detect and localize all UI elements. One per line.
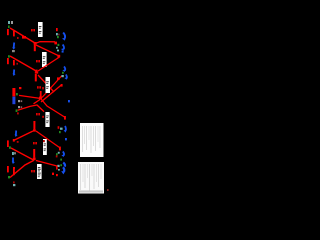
wire V1 to hub1 <box>10 28 35 43</box>
annotation box BB1 <box>80 123 104 157</box>
resistor above hub5 <box>33 149 35 158</box>
node K blob <box>57 55 60 58</box>
component box U5 <box>43 139 47 155</box>
wire hub2 down-right <box>38 75 54 92</box>
teal dot <box>58 169 60 171</box>
green terminal cell5 <box>9 146 11 148</box>
right terminal T1 pin <box>56 28 58 31</box>
red blob <box>13 167 15 169</box>
source bar red (cell3) <box>12 88 15 96</box>
load arrow (blue) <box>63 152 64 156</box>
wire hub1 to node K <box>36 45 60 56</box>
terminal bar end <box>64 116 66 120</box>
source V2 green terminal <box>8 55 10 57</box>
red dots <box>52 173 54 175</box>
wire V5 to hub5 <box>11 148 34 160</box>
blob on wire <box>57 77 60 80</box>
big blue arrow <box>63 163 65 167</box>
wire hub5 down-right <box>36 161 58 167</box>
cell6 resistor b <box>13 169 15 176</box>
red dot below <box>17 112 19 114</box>
resistor R3b <box>13 60 15 65</box>
component box U2 <box>42 52 47 67</box>
wire terminal line with branch to U4 <box>18 105 44 112</box>
source bar blue (cell3) <box>12 97 15 105</box>
blue dot above <box>65 138 67 140</box>
T1 label <box>56 33 60 35</box>
gray label b <box>18 106 22 108</box>
teal mark <box>57 50 59 52</box>
label R3 value (red) <box>36 60 40 62</box>
hub node H4 <box>33 129 36 131</box>
label (red) cell6 <box>31 170 35 172</box>
cell6 wire up to hub5 <box>10 160 34 177</box>
dark red blob on U5 corner <box>43 140 45 142</box>
resistor R4 below hub2 <box>35 74 37 81</box>
T3 teal label <box>61 75 63 77</box>
component box U3 <box>46 77 51 93</box>
wire hub4 down-left <box>15 131 34 140</box>
green terminal (cell3) <box>16 93 18 95</box>
cell3 junction dot top <box>19 87 21 89</box>
faint red dot far right <box>107 189 109 191</box>
red dot <box>17 141 19 143</box>
T5 red end <box>61 84 63 87</box>
resistor R3a <box>7 58 9 64</box>
wire hub3 stub up <box>40 91 42 97</box>
load arrow T4 (blue) <box>66 75 67 79</box>
annotation box BB2 <box>78 162 104 194</box>
wire hub4 down-right <box>36 131 60 148</box>
wire hub3 down-left stub <box>34 100 41 104</box>
label (red) cell5 <box>33 142 37 144</box>
hub node H3 <box>39 97 42 100</box>
teal label cell5 <box>12 152 16 155</box>
red wire end bar <box>56 166 58 169</box>
cell4 right terminal bar <box>59 147 61 151</box>
wire hub3 to T3 (steep) <box>42 76 62 98</box>
label under L1 <box>12 50 15 52</box>
wire hub2 to node K <box>38 57 60 71</box>
node N1 label text <box>8 21 13 24</box>
load arrow (blue) <box>64 126 67 131</box>
junction dot <box>16 63 18 65</box>
teal label cell6 <box>13 184 15 186</box>
label R1 value (red) <box>31 29 35 31</box>
green terminal 2 (cell3) <box>16 109 18 112</box>
green terminal cell6 <box>8 176 10 178</box>
resistor R1b <box>13 31 15 36</box>
gray label a <box>18 100 22 102</box>
resistor R5 above hub4 <box>33 121 35 129</box>
terminal red dot <box>58 126 60 129</box>
wire hub3 to T5 (shallow) <box>41 85 61 102</box>
source V1 green terminal <box>8 26 10 29</box>
component box U6 <box>37 164 42 179</box>
red dot <box>56 155 58 157</box>
T2 label teal <box>56 47 58 49</box>
teal label end <box>57 165 59 167</box>
blue dot right <box>68 100 70 102</box>
junction dot <box>17 37 19 39</box>
teal label <box>58 152 60 154</box>
load arrow L1 (blue, left col) <box>13 43 16 49</box>
load arrow cell5 (blue) <box>12 158 14 163</box>
component box U1 <box>38 22 43 37</box>
load arrow cell4-left (blue) <box>15 131 17 136</box>
hub node H5 <box>33 158 36 161</box>
cell5 resistor bar <box>7 140 9 147</box>
green terminal <box>56 153 58 155</box>
wire end blob <box>54 42 57 45</box>
T2 green terminal <box>57 44 59 46</box>
wire thick blob <box>22 36 26 39</box>
label (red) cell3 <box>37 86 41 88</box>
green dots right <box>60 159 62 161</box>
cell4 red dot left of U4 <box>42 116 44 118</box>
load arrow T1 (blue) <box>63 33 65 39</box>
teal label <box>60 128 63 130</box>
T1 green terminal <box>57 36 59 38</box>
red dot below <box>13 181 15 183</box>
red dot left of U3 <box>42 87 44 89</box>
component box U4 <box>45 112 49 127</box>
label (red) cell4 <box>36 113 40 115</box>
hub node H2 <box>36 70 38 74</box>
green terminal <box>59 131 61 133</box>
wire hub3 down-right long <box>42 100 65 118</box>
wire to hub3 <box>19 95 40 98</box>
load arrow L2 (blue, left col) <box>13 70 15 75</box>
cell2 right: blue arrow T3 <box>64 67 65 71</box>
T3 green terminal <box>62 72 64 74</box>
wire hub1 right <box>36 42 55 44</box>
hub node H1 <box>34 42 37 44</box>
blue dot <box>62 51 64 53</box>
cell6 resistor a <box>7 166 9 172</box>
load arrow T2 (blue) <box>63 45 64 50</box>
resistor R2 below hub1 <box>34 44 36 51</box>
end blob <box>13 139 15 142</box>
wire V2 to hub2 <box>10 56 37 72</box>
resistor R1a <box>7 29 9 35</box>
